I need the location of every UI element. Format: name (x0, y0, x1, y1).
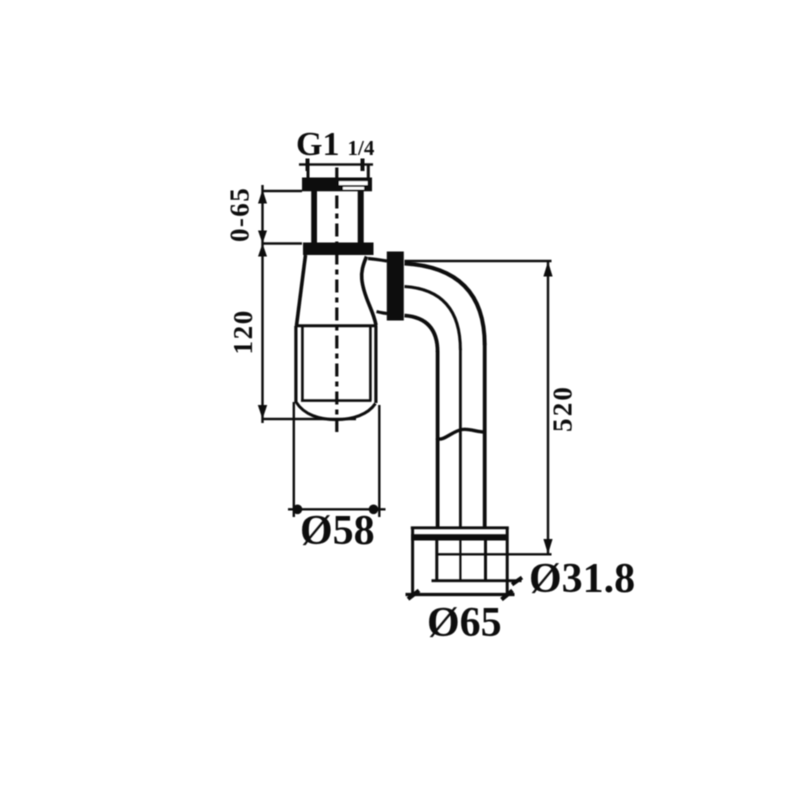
svg-text:Ø65: Ø65 (427, 600, 502, 646)
arrowheads meeting at 243.5 (258, 231, 267, 257)
branch neck bottom line (377, 312, 388, 314)
arrowhead down at 120 bottom (258, 405, 267, 419)
dimension line 520 vertical (547, 261, 549, 554)
flange bottom line / dia 65 dimension (406, 593, 515, 596)
arrowhead up 520 (543, 262, 552, 277)
threaded collar band A (302, 178, 372, 192)
cup inner bottom line (301, 399, 372, 402)
inlet pipe rim right wall (367, 165, 370, 180)
svg-text:0-65: 0-65 (225, 187, 255, 242)
white slot in collar band A upper (339, 181, 368, 185)
elbow middle line arc (405, 287, 461, 351)
dot arrow right dia 58 (369, 505, 379, 515)
svg-text:Ø31.8: Ø31.8 (529, 556, 635, 602)
dimension line for G1 1/4 across inlet rim (299, 163, 373, 166)
downpipe left wall (436, 351, 440, 528)
flange top line (411, 526, 509, 529)
extension line left for dia 58 (293, 402, 295, 517)
trap body right wall with branch saddle (362, 257, 376, 326)
downpipe middle line (459, 349, 462, 528)
downpipe right wall (483, 344, 487, 528)
cup outer right wall (374, 326, 377, 403)
extension line top of 0-65 (264, 190, 303, 192)
trap body taper left wall (297, 255, 306, 326)
svg-text:G1: G1 (296, 126, 339, 163)
cup inner right wall (369, 327, 372, 401)
tailpiece bottom line / dia 31.8 reference (432, 579, 522, 582)
inlet tube right wall (358, 191, 364, 244)
arrowhead up at 0-65 top (258, 190, 267, 204)
white slot in collar band A lower (343, 187, 364, 190)
slip nut band B (303, 243, 374, 256)
svg-text:Ø58: Ø58 (300, 508, 375, 554)
svg-text:1/4: 1/4 (348, 136, 375, 160)
tailpiece centerline in flange (459, 541, 461, 581)
left dimension line vertical (261, 185, 263, 423)
label G1 1/4 thread size (296, 126, 375, 163)
cup inner left wall (301, 327, 304, 401)
elbow outer arc (405, 264, 485, 346)
tick at right end of dia 31.8 reference (512, 578, 522, 585)
left tick of G1 1/4 dimension (306, 159, 310, 172)
dimension line dia 58 (288, 508, 386, 510)
right tick of G1 1/4 dimension (361, 159, 365, 172)
elbow inner arc (405, 316, 438, 353)
branch slip nut (black band) (387, 252, 404, 321)
svg-text:120: 120 (228, 309, 258, 354)
vertical centerline of trap body (dashed) (335, 168, 338, 433)
cup outer left wall (294, 326, 297, 403)
tailpiece left wall in flange (435, 541, 438, 581)
svg-text:520: 520 (548, 385, 578, 432)
pipe break squiggle (436, 429, 486, 439)
tailpiece right wall in flange (484, 541, 487, 581)
extension line right for dia 58 (378, 405, 380, 517)
branch neck top line (368, 259, 387, 262)
cup bottom dome (296, 403, 375, 420)
cup top rim line (295, 324, 377, 327)
flange outer right wall (506, 528, 509, 595)
flange outer left wall (411, 528, 414, 595)
oblique tick left dia 65 (408, 591, 419, 600)
inlet pipe rim left wall (307, 165, 310, 180)
inlet tube left wall (311, 191, 317, 244)
extension line top for 520 (405, 260, 552, 262)
extension line bottom for 520 (437, 553, 552, 555)
extension line bottom of 120 at cup tip (264, 418, 357, 420)
flange dark band (411, 534, 509, 540)
arrowhead down 520 (543, 539, 552, 554)
extension line shared 0-65 / 120 (264, 242, 303, 244)
dot arrow left dia 58 (293, 505, 303, 515)
oblique tick right dia 65 (502, 591, 513, 600)
